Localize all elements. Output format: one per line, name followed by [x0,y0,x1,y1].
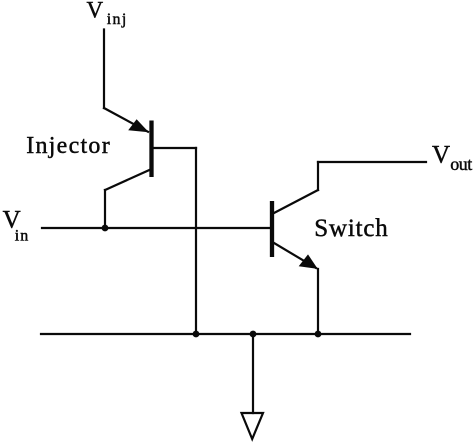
transistor Q2 switch label [314,215,388,242]
node junction dot rail / Q1 base [193,331,200,338]
wire Q2 emitter vertical to rail [317,269,319,334]
wire Q1 base lead horizontal [152,147,196,149]
wire V_inj vertical lead [103,30,105,109]
svg-text:Switch: Switch [314,215,388,242]
transistor Q2 switch emitter arrowhead (points away from bar, NPN) [299,254,318,269]
wire Q1 collector vertical to V_in [104,190,106,228]
svg-text:V: V [87,0,104,22]
svg-text:in: in [15,227,28,244]
svg-text:V: V [432,142,450,169]
transistor Q1 injector base bar [149,121,153,178]
svg-text:inj: inj [107,11,127,28]
wire Q1 collector diagonal [105,170,151,191]
node V_inj label [87,0,127,28]
node junction dot rail / ground stem [250,331,257,338]
wire Q2 collector diagonal [274,190,318,213]
wire Q2 collector vertical [317,162,319,190]
wire Q2 emitter diagonal [274,243,316,268]
ground symbol open triangle [242,413,264,439]
transistor Q1 injector label [26,133,110,159]
node V_in label [3,206,29,244]
wire V_inj diagonal to injector emitter [104,108,148,132]
wire V_out horizontal [318,161,426,163]
svg-text:Injector: Injector [26,133,110,159]
wire ground stem vertical [252,334,254,413]
wire ground rail horizontal [41,333,410,335]
transistor Q2 switch base bar [270,201,274,257]
transistor Q1 injector emitter arrowhead (points into base bar, PNP) [128,119,149,132]
wire Q1 base to ground rail vertical [195,148,197,334]
node V_out label [432,142,472,174]
node junction dot rail / Q2 emitter [315,331,322,338]
node junction dot V_in / Q1 collector [102,225,109,232]
svg-text:out: out [450,154,472,174]
wire V_in horizontal to switch base [42,227,270,229]
